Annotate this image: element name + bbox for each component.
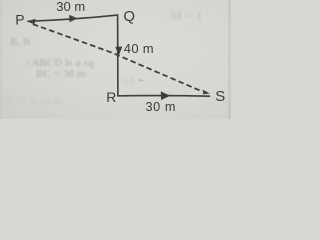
svg-text:P: P [15, 11, 24, 27]
svg-text:40 m: 40 m [124, 41, 154, 56]
svg-text:Q: Q [123, 8, 135, 25]
svg-text:30 m: 30 m [56, 0, 85, 14]
svg-text:S: S [215, 88, 225, 105]
svg-text:B, B: B, B [10, 36, 31, 48]
svg-text:R: R [106, 89, 116, 105]
svg-text:(IA: (IA [122, 76, 135, 86]
svg-text:M = 1: M = 1 [170, 8, 203, 23]
svg-text:30 m: 30 m [146, 100, 177, 114]
svg-text:is 30 m to th: is 30 m to th [5, 95, 62, 107]
svg-text:BC = 30 m: BC = 30 m [36, 68, 86, 80]
